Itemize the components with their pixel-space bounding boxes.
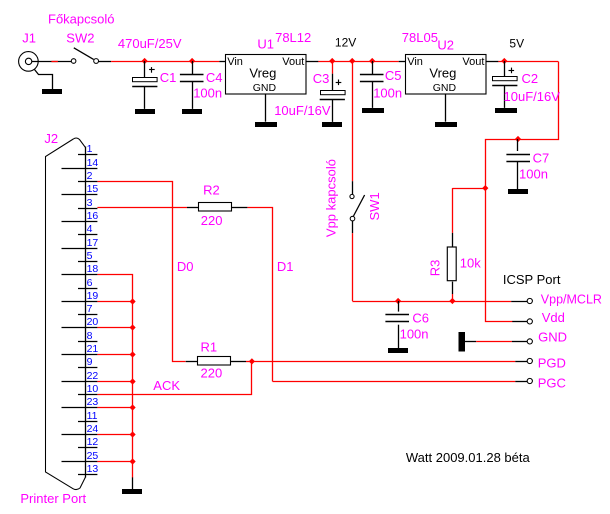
svg-text:100n: 100n — [193, 86, 222, 101]
svg-text:D0: D0 — [177, 259, 194, 274]
svg-text:C7: C7 — [533, 151, 550, 166]
svg-text:C6: C6 — [412, 310, 429, 325]
svg-text:22: 22 — [87, 370, 99, 382]
svg-text:Vin: Vin — [227, 56, 243, 68]
svg-text:D1: D1 — [277, 259, 294, 274]
svg-text:Watt 2009.01.28 béta: Watt 2009.01.28 béta — [406, 450, 531, 465]
svg-text:24: 24 — [87, 423, 99, 435]
svg-text:78L05: 78L05 — [402, 30, 438, 45]
svg-text:PGD: PGD — [538, 356, 566, 371]
svg-text:J2: J2 — [44, 131, 58, 146]
svg-text:ICSP Port: ICSP Port — [503, 272, 561, 287]
svg-text:Vreg: Vreg — [249, 65, 276, 80]
svg-text:C3: C3 — [313, 71, 330, 86]
svg-text:Vout: Vout — [282, 56, 304, 68]
svg-text:Vout: Vout — [462, 56, 484, 68]
svg-text:220: 220 — [201, 213, 223, 228]
svg-text:Vpp kapcsoló: Vpp kapcsoló — [324, 159, 339, 237]
svg-text:15: 15 — [87, 183, 99, 195]
svg-text:8: 8 — [87, 330, 93, 342]
svg-text:Vin: Vin — [407, 56, 423, 68]
svg-text:5V: 5V — [509, 37, 524, 51]
svg-text:16: 16 — [87, 210, 99, 222]
svg-text:SW2: SW2 — [66, 30, 94, 45]
svg-text:9: 9 — [87, 356, 93, 368]
svg-text:23: 23 — [87, 396, 99, 408]
svg-text:18: 18 — [87, 263, 99, 275]
svg-text:6: 6 — [87, 277, 93, 289]
svg-text:7: 7 — [87, 303, 93, 315]
svg-text:C5: C5 — [385, 68, 402, 83]
svg-text:U2: U2 — [437, 38, 454, 53]
svg-text:78L12: 78L12 — [275, 30, 311, 45]
svg-text:25: 25 — [87, 450, 99, 462]
svg-text:GND: GND — [253, 82, 277, 94]
svg-text:10k: 10k — [460, 256, 481, 271]
svg-text:GND: GND — [538, 330, 567, 345]
svg-text:J1: J1 — [22, 30, 36, 45]
svg-text:R2: R2 — [203, 183, 220, 198]
svg-text:R3: R3 — [427, 260, 442, 277]
svg-text:5: 5 — [87, 250, 93, 262]
svg-text:21: 21 — [87, 343, 99, 355]
svg-text:C2: C2 — [522, 71, 539, 86]
svg-text:20: 20 — [87, 316, 99, 328]
svg-text:100n: 100n — [373, 86, 402, 101]
svg-text:PGC: PGC — [538, 375, 566, 390]
svg-text:14: 14 — [87, 157, 99, 169]
svg-text:Főkapcsoló: Főkapcsoló — [48, 12, 114, 27]
svg-text:10: 10 — [87, 383, 99, 395]
svg-text:Vdd: Vdd — [542, 310, 565, 325]
svg-text:19: 19 — [87, 290, 99, 302]
svg-text:Vpp/MCLR: Vpp/MCLR — [541, 292, 602, 306]
svg-text:12V: 12V — [335, 36, 356, 50]
svg-text:Vreg: Vreg — [429, 65, 456, 80]
svg-text:4: 4 — [87, 223, 93, 235]
svg-text:R1: R1 — [201, 340, 218, 355]
svg-text:17: 17 — [87, 237, 99, 249]
svg-text:220: 220 — [201, 365, 223, 380]
svg-text:SW1: SW1 — [367, 192, 382, 220]
svg-text:100n: 100n — [519, 167, 548, 182]
svg-text:3: 3 — [87, 197, 93, 209]
svg-text:GND: GND — [433, 82, 457, 94]
svg-text:C4: C4 — [206, 70, 223, 85]
svg-text:ACK: ACK — [153, 378, 180, 393]
svg-text:C1: C1 — [160, 70, 177, 85]
svg-text:10uF/16V: 10uF/16V — [274, 103, 331, 118]
svg-text:11: 11 — [87, 410, 98, 422]
svg-text:10uF/16V: 10uF/16V — [504, 89, 561, 104]
svg-text:100n: 100n — [400, 327, 429, 342]
svg-text:U1: U1 — [257, 37, 274, 52]
svg-text:2: 2 — [87, 170, 93, 182]
svg-text:470uF/25V: 470uF/25V — [118, 36, 182, 51]
svg-text:12: 12 — [87, 436, 99, 448]
svg-text:Printer Port: Printer Port — [20, 491, 86, 506]
svg-text:13: 13 — [87, 463, 99, 475]
svg-text:1: 1 — [87, 143, 93, 155]
